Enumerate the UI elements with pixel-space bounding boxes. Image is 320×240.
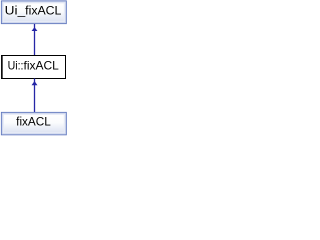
wire: edge fixACL to Ui::fixACL (inheritance line) <box>34 79 36 113</box>
arrowhead of edge Ui::fixACL to Ui_fixACL <box>32 27 38 31</box>
background <box>0 0 68 136</box>
svg-text:fixACL: fixACL <box>16 116 51 128</box>
arrowhead of edge fixACL to Ui::fixACL <box>32 81 38 85</box>
node fixACL (derived class box, linked node style) <box>1 112 66 134</box>
svg-text:Ui::fixACL: Ui::fixACL <box>8 58 60 72</box>
svg-text:Ui_fixACL: Ui_fixACL <box>5 5 62 17</box>
node Ui::fixACL (current class box) <box>1 55 66 79</box>
wire: edge Ui::fixACL to Ui_fixACL (inheritance line) <box>34 24 36 56</box>
node Ui_fixACL (base class box, linked node style) <box>1 1 66 24</box>
